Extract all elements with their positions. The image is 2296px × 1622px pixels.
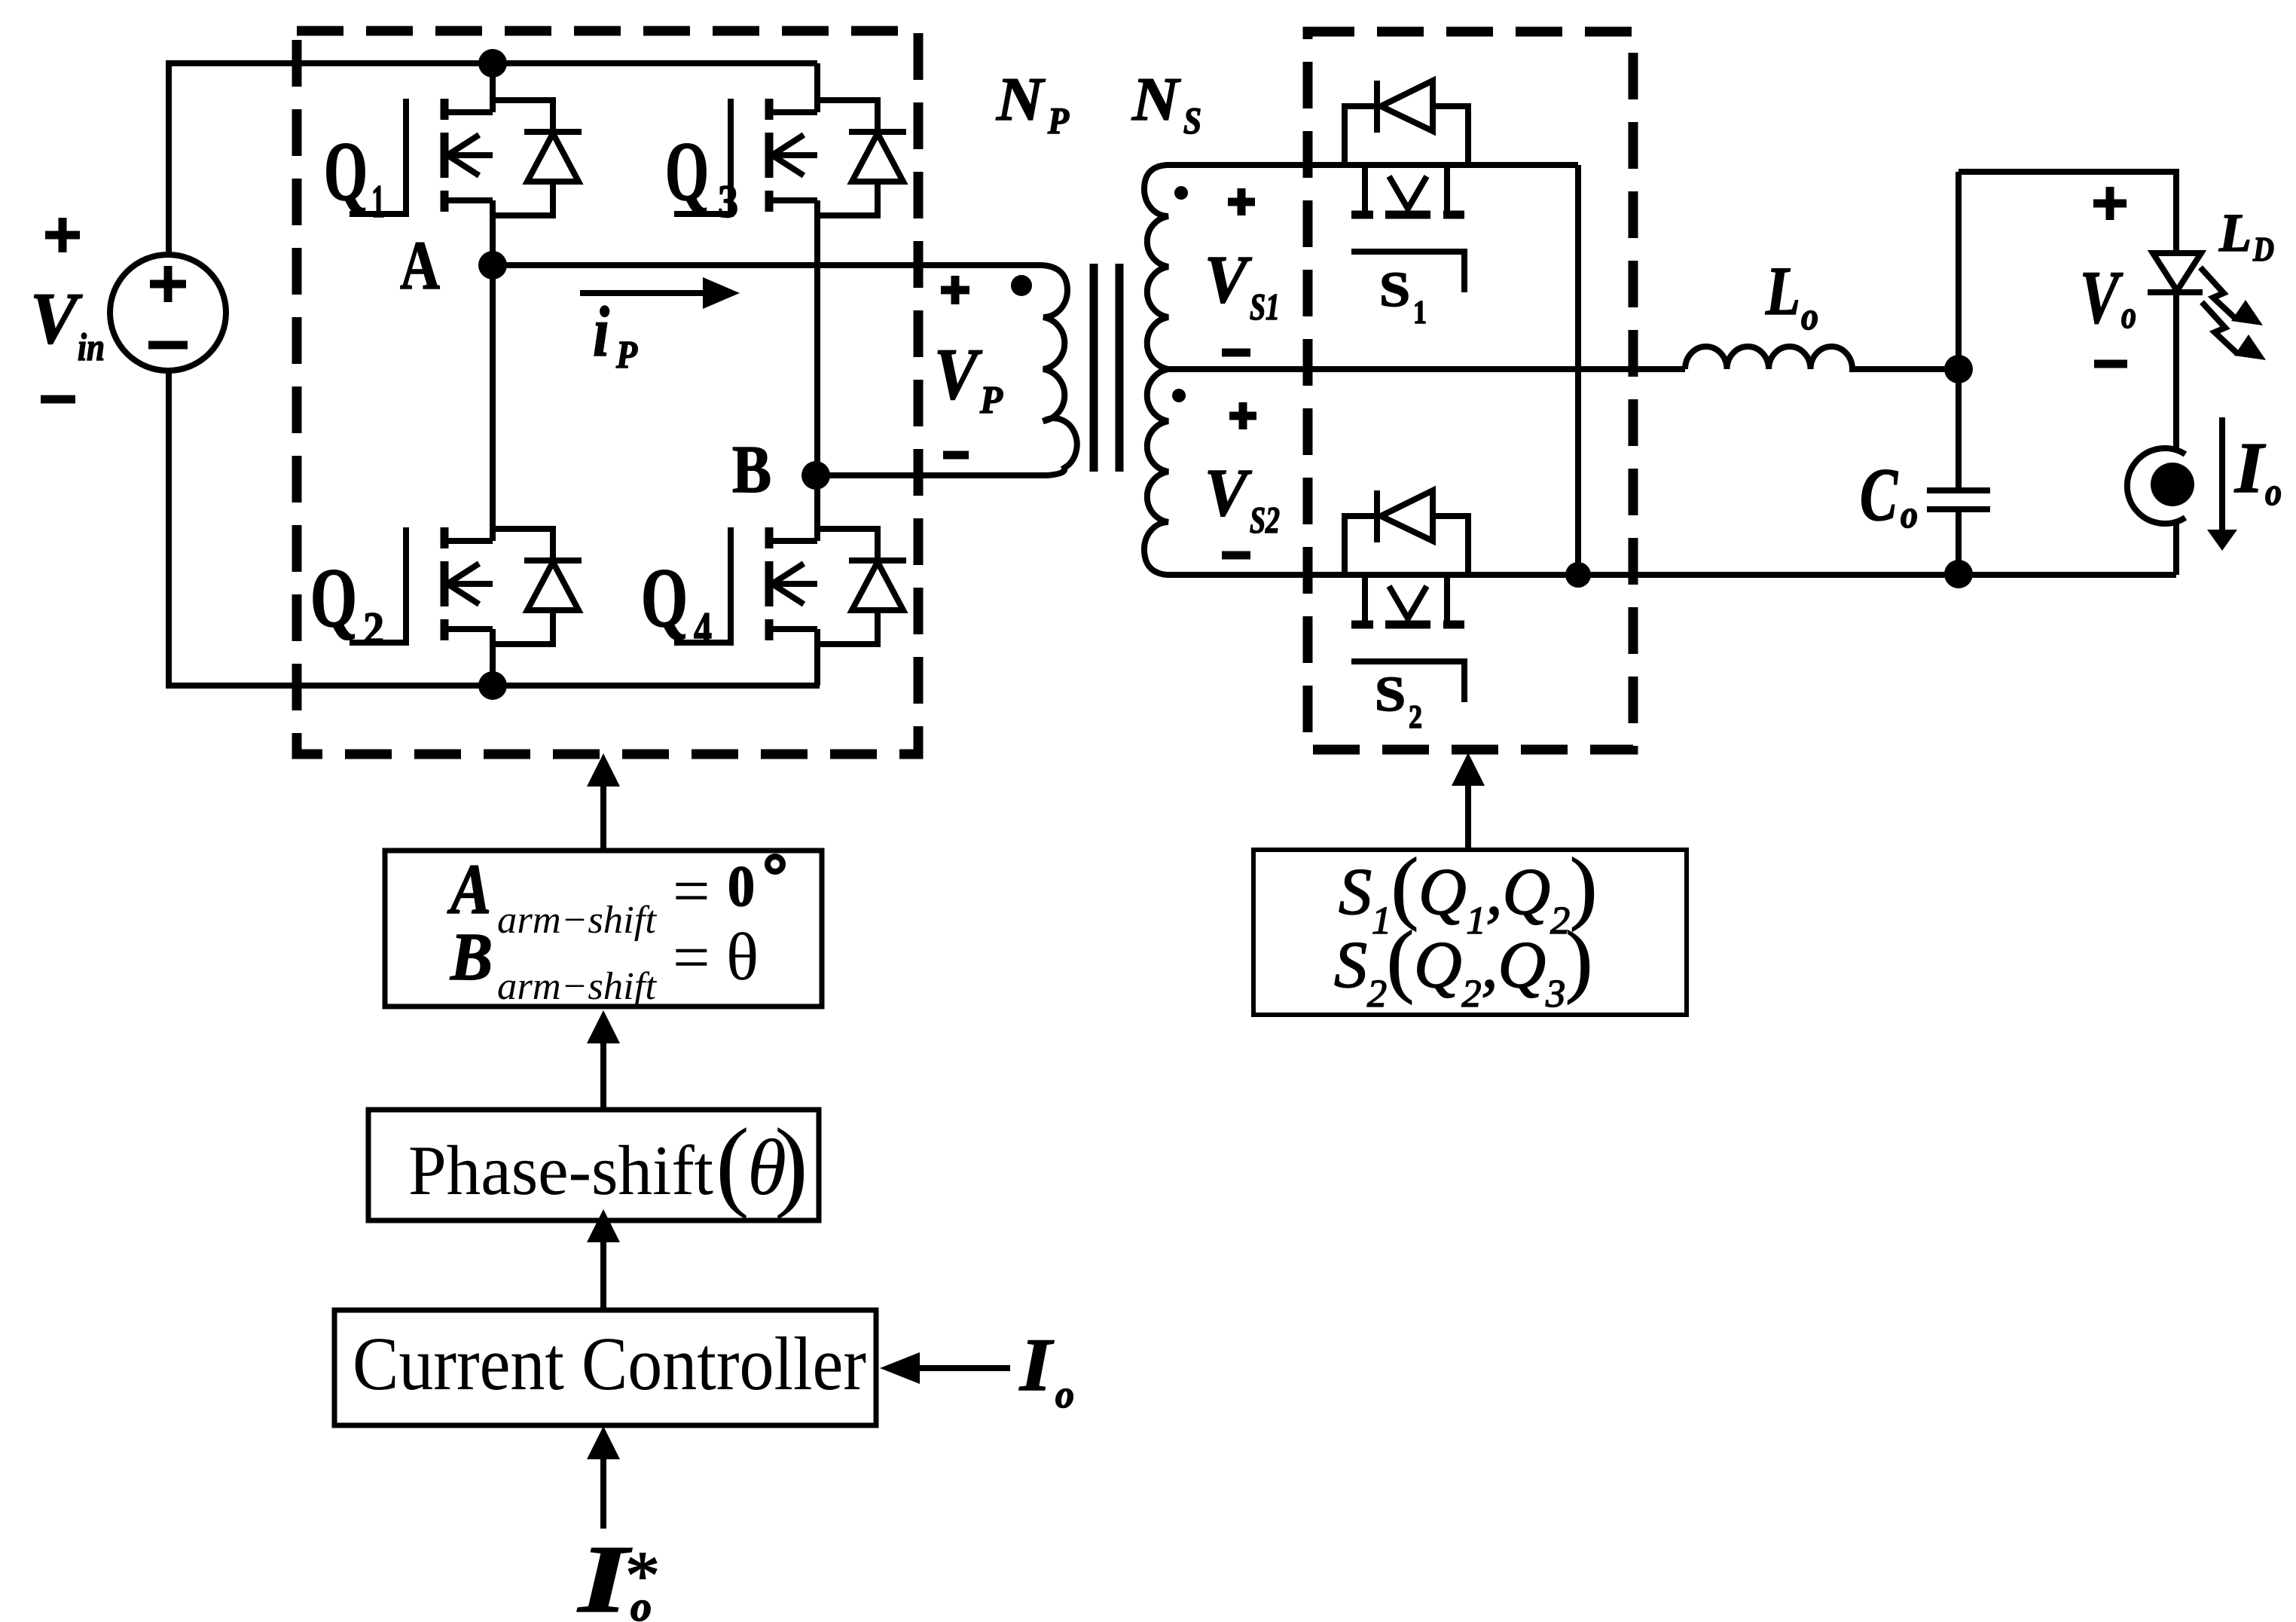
svg-text:P: P — [615, 334, 638, 377]
svg-text:S1: S1 — [1250, 286, 1280, 328]
svg-text:V: V — [934, 334, 983, 414]
svg-text:S: S — [1375, 667, 1406, 722]
svg-text:o: o — [1801, 295, 1818, 338]
svg-text:1: 1 — [371, 176, 385, 228]
svg-text:4: 4 — [694, 603, 712, 655]
svg-text:=: = — [673, 855, 710, 928]
svg-text:S2: S2 — [1250, 499, 1280, 541]
svg-text:A: A — [447, 849, 491, 929]
svg-text:V: V — [30, 278, 83, 359]
svg-text:Q: Q — [310, 551, 357, 645]
svg-text:1: 1 — [1413, 294, 1427, 331]
svg-text:S1(Q1,Q2): S1(Q1,Q2) — [1339, 842, 1597, 942]
svg-text:o: o — [2265, 471, 2282, 514]
svg-text:S: S — [1379, 262, 1410, 317]
svg-text:Phase-shift: Phase-shift — [408, 1132, 713, 1210]
svg-text:D: D — [2252, 230, 2274, 268]
svg-text:*: * — [625, 1537, 660, 1614]
svg-text:3: 3 — [718, 176, 738, 228]
svg-text:A: A — [400, 227, 440, 304]
svg-text:2: 2 — [1409, 698, 1422, 735]
svg-text:=: = — [673, 921, 710, 994]
svg-text:B: B — [732, 432, 771, 507]
svg-text:Q: Q — [324, 125, 368, 218]
svg-text:L: L — [1765, 252, 1800, 329]
svg-text:2: 2 — [363, 603, 384, 655]
svg-text:I: I — [576, 1526, 632, 1622]
svg-text:I: I — [2234, 427, 2267, 508]
svg-text:θ: θ — [726, 920, 759, 994]
svg-text:arm−shift: arm−shift — [497, 965, 658, 1008]
svg-text:o: o — [1055, 1373, 1074, 1416]
svg-text:o: o — [2121, 294, 2136, 337]
svg-text:N: N — [1131, 65, 1181, 133]
svg-text:Current Controller: Current Controller — [353, 1321, 866, 1406]
svg-text:): ) — [774, 1108, 808, 1220]
svg-text:i: i — [593, 292, 609, 371]
svg-text:Q: Q — [641, 551, 688, 645]
svg-text:S: S — [1183, 99, 1201, 142]
svg-text:V: V — [2080, 255, 2123, 339]
svg-text:N: N — [996, 65, 1046, 133]
svg-text:0: 0 — [728, 854, 755, 918]
svg-text:V: V — [1204, 243, 1253, 317]
svg-text:B: B — [450, 920, 493, 994]
svg-text:I: I — [1019, 1323, 1054, 1407]
svg-text:o: o — [1901, 493, 1918, 536]
svg-text:arm−shift: arm−shift — [497, 899, 658, 942]
svg-text:(: ( — [716, 1108, 750, 1220]
svg-text:P: P — [1047, 99, 1069, 142]
svg-text:Q: Q — [665, 125, 709, 218]
svg-text:L: L — [2218, 203, 2252, 263]
svg-text:C: C — [1860, 453, 1898, 536]
svg-text:V: V — [1204, 456, 1253, 530]
svg-text:in: in — [78, 326, 105, 369]
svg-text:P: P — [979, 379, 1003, 422]
